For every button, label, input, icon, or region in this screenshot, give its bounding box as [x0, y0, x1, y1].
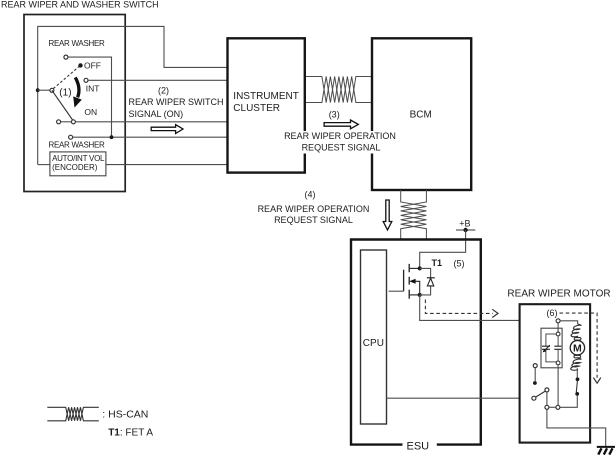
svg-text:T1: FET A: T1: FET A — [108, 428, 153, 439]
encoder box AUTO/INT VOL — [50, 152, 106, 176]
svg-text:REAR WASHER: REAR WASHER — [49, 39, 105, 48]
park switch pivot contact — [532, 396, 536, 400]
cap top terminal — [556, 332, 560, 336]
svg-text:(1): (1) — [59, 88, 71, 99]
arrow signal (2) — [151, 125, 183, 134]
wire (6) contact to cap top — [557, 323, 559, 332]
switch assembly box — [24, 15, 125, 192]
rotation arrow curved — [75, 77, 79, 97]
legend twisted pair symbol line B — [47, 407, 99, 421]
pivot contact — [50, 88, 54, 92]
svg-text:ON: ON — [84, 107, 97, 117]
junction contacts row — [545, 405, 549, 409]
ESU box (gap in bottom edge for label) — [351, 240, 481, 445]
svg-text:+B: +B — [459, 218, 470, 228]
cap right branch wires — [557, 336, 559, 361]
wire gate to CPU — [389, 290, 404, 292]
svg-text:INSTRUMENT: INSTRUMENT — [233, 91, 299, 102]
T1 body lead with arrow — [415, 281, 420, 293]
park switch stub contact — [533, 364, 537, 368]
svg-text:INT: INT — [86, 84, 100, 94]
contact ON left — [57, 120, 61, 124]
capacitor plates left — [542, 346, 550, 349]
wire stub — [534, 368, 536, 382]
svg-text:T1: T1 — [432, 258, 443, 268]
wire T1 source to motor — [420, 295, 557, 321]
cap left branch wires — [546, 334, 556, 362]
wire between junction contacts — [549, 406, 556, 408]
contact rear washer bottom — [69, 135, 73, 139]
wire CPU to motor park switch — [387, 397, 533, 399]
motor M circle — [570, 341, 584, 355]
svg-text:REQUEST SIGNAL: REQUEST SIGNAL — [302, 142, 381, 152]
cap bottom terminal — [556, 361, 560, 365]
svg-text:REAR WASHER: REAR WASHER — [49, 141, 105, 150]
T1 drain lead — [409, 267, 420, 269]
svg-text:REAR WIPER OPERATION: REAR WIPER OPERATION — [258, 204, 370, 214]
svg-text:(ENCODER): (ENCODER) — [52, 163, 98, 172]
ground symbol — [597, 446, 615, 448]
coil upper — [571, 324, 581, 337]
wire coil to park contact — [576, 368, 578, 377]
wire dashed (6) route — [560, 313, 598, 378]
svg-text:M: M — [573, 343, 582, 355]
arrowhead dashed (5) — [492, 309, 498, 317]
park blade — [536, 391, 546, 397]
contact motor feed (6) — [556, 319, 560, 323]
svg-text:REQUEST SIGNAL: REQUEST SIGNAL — [274, 215, 353, 225]
svg-text:BCM: BCM — [410, 110, 432, 121]
legend twisted pair symbol line A — [47, 407, 99, 421]
mask for label over BCM edge — [284, 131, 399, 154]
+B terminal bar — [456, 229, 475, 231]
svg-text:REAR WIPER OPERATION: REAR WIPER OPERATION — [284, 131, 396, 141]
CPU box — [361, 250, 387, 424]
body diode wires — [420, 268, 431, 295]
wire throw to junction — [546, 392, 548, 405]
wire cap bottom to junction row — [557, 365, 559, 406]
wire pivot to bus — [38, 89, 50, 91]
contact rear washer top — [64, 55, 68, 59]
svg-text:(6): (6) — [547, 308, 558, 318]
wire common bus (pivot to top route and encoder route) — [38, 26, 227, 164]
wire washer top to lower washer wire — [68, 57, 112, 137]
diode triangle — [427, 278, 433, 286]
instrument cluster box — [228, 38, 305, 172]
rear wiper motor box — [520, 304, 591, 442]
wire CAN twisted pair B (BCM-ESU) — [401, 190, 427, 240]
svg-text:SIGNAL (ON): SIGNAL (ON) — [129, 109, 184, 119]
wire ON contacts — [61, 121, 72, 123]
svg-text:CPU: CPU — [363, 338, 384, 349]
wire CAN twisted pair A (BCM-ESU) — [401, 190, 427, 240]
brush top — [574, 338, 581, 340]
node junction at pivot wire — [36, 88, 40, 92]
transistor Q T1: gate bar — [403, 270, 405, 292]
T1 source lead — [409, 294, 420, 296]
svg-text:REAR WIPER SWITCH: REAR WIPER SWITCH — [129, 97, 224, 107]
svg-text:(5): (5) — [454, 259, 465, 269]
svg-text:AUTO/INT VOL: AUTO/INT VOL — [52, 154, 105, 163]
wire washer to cluster — [73, 136, 227, 138]
wire CAN twisted pair A (cluster-BCM) — [306, 77, 372, 103]
coil lower — [571, 358, 582, 371]
OFF terminal dot — [78, 63, 82, 67]
arrowhead dashed (6) down — [593, 378, 600, 384]
svg-text:: HS-CAN: : HS-CAN — [102, 409, 148, 421]
contact ON right (blade tip) — [71, 120, 75, 124]
T1 channel bar segments — [408, 264, 410, 299]
svg-text:REAR WIPER AND WASHER SWITCH: REAR WIPER AND WASHER SWITCH — [1, 0, 159, 10]
wire dashed signal path (5) — [425, 300, 492, 314]
node junction washer wires — [110, 135, 114, 139]
svg-text:(3): (3) — [329, 110, 340, 120]
svg-text:OFF: OFF — [84, 61, 101, 71]
park switch armature-side contact dots — [576, 377, 580, 381]
arrow signal (3) — [324, 120, 358, 129]
capacitor unit box — [541, 328, 562, 368]
brush bottom — [574, 355, 581, 357]
wire bus to encoder — [38, 164, 50, 166]
stub end dot — [533, 381, 537, 385]
switch blade to ON — [52, 90, 73, 120]
BCM box — [372, 38, 471, 190]
svg-text:(2): (2) — [158, 86, 169, 96]
node drain junction — [418, 266, 422, 270]
wire +B to T1 drain — [420, 230, 466, 267]
wire CAN twisted pair B (cluster-BCM) — [306, 77, 372, 103]
park throw contact — [545, 388, 549, 392]
wire encoder to cluster — [106, 164, 227, 166]
svg-text:(4): (4) — [305, 189, 316, 199]
+B terminal dot — [463, 228, 467, 232]
svg-text:ESU: ESU — [407, 440, 430, 452]
switch blade dashed to OFF — [53, 66, 79, 88]
svg-text:CLUSTER: CLUSTER — [233, 103, 280, 114]
capacitor plates right — [554, 346, 561, 349]
arrow signal (4) down — [383, 200, 392, 230]
wire (6) to armature branch — [560, 321, 578, 324]
wire junction to ground — [547, 409, 606, 446]
wire contact to bottom junction — [560, 396, 577, 408]
blade armature side — [576, 381, 577, 392]
svg-text:REAR WIPER MOTOR: REAR WIPER MOTOR — [507, 289, 610, 300]
contact INT — [84, 78, 88, 82]
wire ON to cluster — [75, 121, 227, 123]
wire INT to cluster — [88, 79, 227, 81]
diode cathode bar — [427, 277, 435, 279]
variable arrow on left cap — [544, 345, 550, 351]
node source junction — [418, 293, 422, 297]
